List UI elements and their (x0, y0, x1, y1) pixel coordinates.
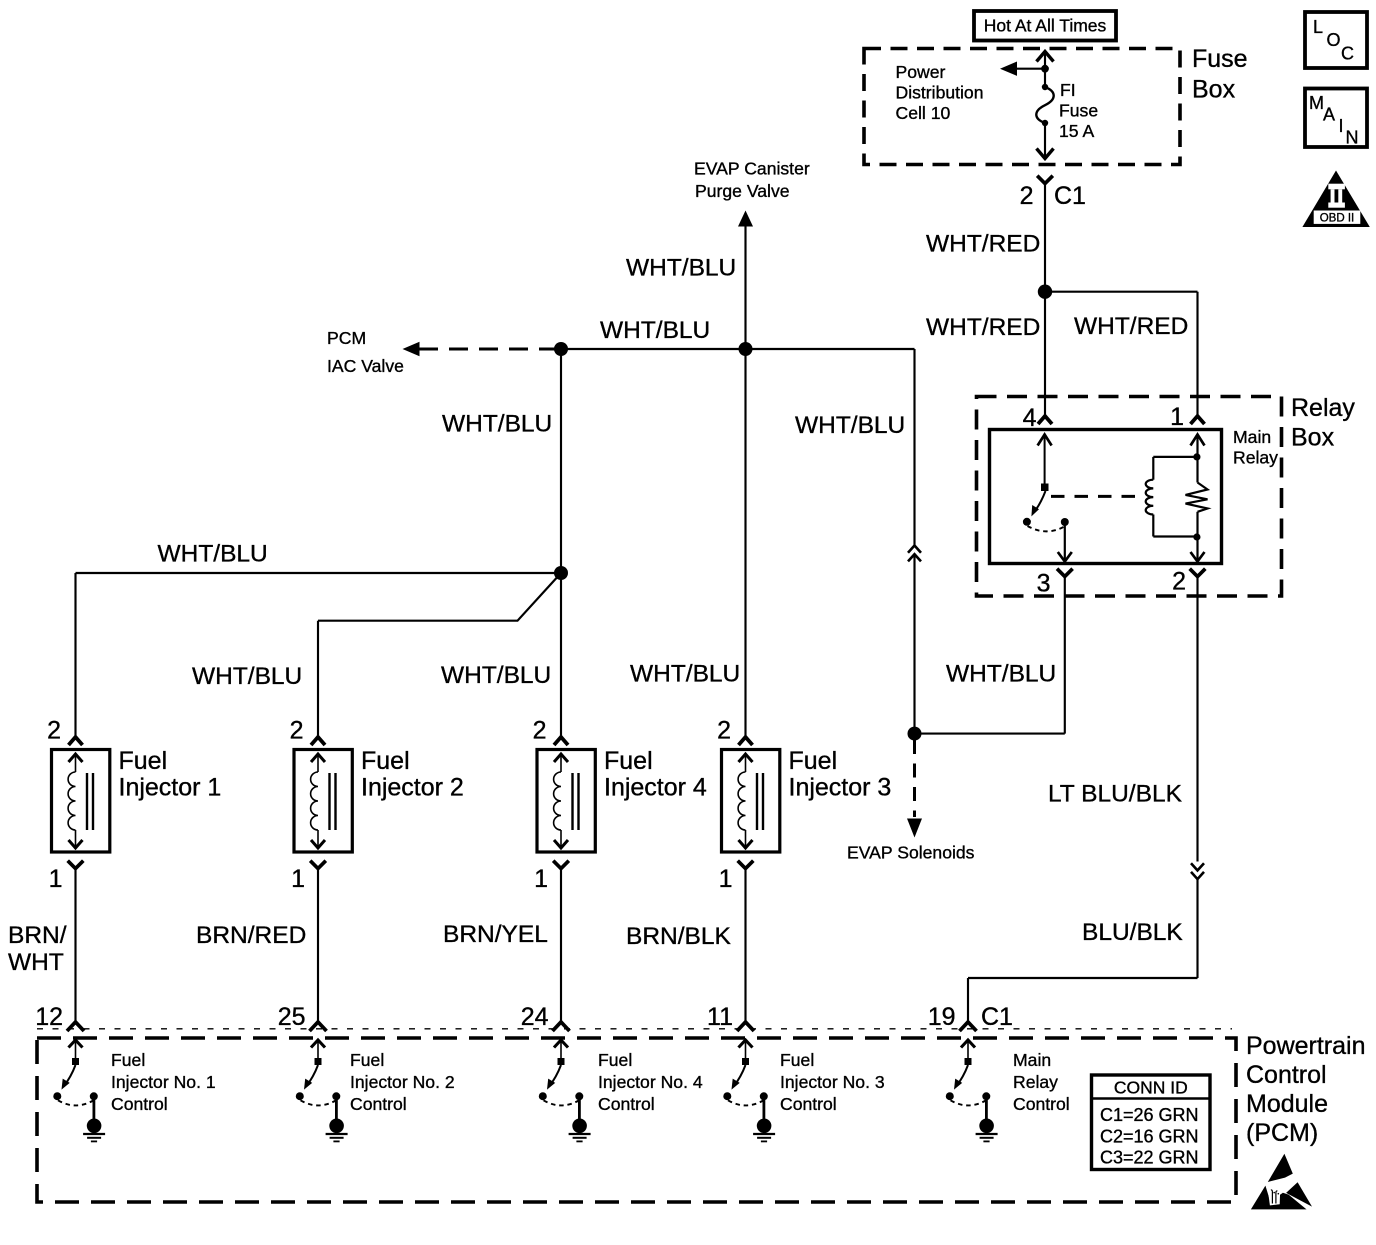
svg-text:Fuse: Fuse (1192, 45, 1248, 73)
svg-text:1: 1 (291, 865, 305, 893)
svg-text:Powertrain: Powertrain (1246, 1032, 1366, 1060)
svg-text:Fuel: Fuel (119, 747, 168, 775)
svg-text:Injector No. 2: Injector No. 2 (350, 1072, 455, 1092)
svg-text:C1: C1 (981, 1003, 1013, 1031)
svg-text:2: 2 (1020, 182, 1034, 210)
svg-text:2: 2 (47, 717, 61, 745)
svg-text:Fuel: Fuel (361, 747, 410, 775)
svg-text:M: M (1309, 93, 1324, 113)
svg-text:Injector 2: Injector 2 (361, 773, 464, 801)
svg-text:EVAP Solenoids: EVAP Solenoids (847, 842, 975, 862)
svg-text:1: 1 (49, 865, 63, 893)
svg-text:Control: Control (598, 1094, 655, 1114)
svg-text:BLU/BLK: BLU/BLK (1082, 919, 1183, 946)
svg-text:2: 2 (290, 717, 304, 745)
svg-text:Injector No. 3: Injector No. 3 (780, 1072, 885, 1092)
svg-text:19: 19 (928, 1003, 956, 1031)
svg-text:Fuel: Fuel (598, 1050, 632, 1070)
svg-text:Injector 4: Injector 4 (604, 773, 707, 801)
svg-text:BRN/RED: BRN/RED (196, 922, 306, 949)
svg-text:Box: Box (1192, 75, 1236, 103)
svg-text:BRN/: BRN/ (8, 922, 67, 949)
svg-text:BRN/BLK: BRN/BLK (626, 923, 732, 950)
svg-text:C1=26 GRN: C1=26 GRN (1100, 1105, 1199, 1125)
svg-text:Control: Control (1013, 1094, 1070, 1114)
svg-text:WHT/BLU: WHT/BLU (795, 412, 905, 439)
svg-text:1: 1 (534, 865, 548, 893)
svg-text:N: N (1346, 128, 1359, 148)
svg-text:Injector No. 1: Injector No. 1 (111, 1072, 216, 1092)
svg-text:Module: Module (1246, 1090, 1328, 1118)
svg-text:WHT/RED: WHT/RED (926, 314, 1040, 341)
svg-text:PCM: PCM (327, 328, 366, 348)
svg-text:2: 2 (533, 717, 547, 745)
svg-text:Control: Control (780, 1094, 837, 1114)
svg-text:4: 4 (1023, 404, 1037, 432)
svg-text:Distribution: Distribution (896, 83, 984, 103)
svg-text:Fuel: Fuel (789, 747, 838, 775)
svg-text:FI: FI (1060, 80, 1076, 100)
svg-text:(PCM): (PCM) (1246, 1119, 1318, 1147)
svg-text:WHT/BLU: WHT/BLU (441, 662, 551, 689)
svg-text:Fuel: Fuel (111, 1050, 145, 1070)
svg-text:Main: Main (1233, 427, 1271, 447)
svg-text:Relay: Relay (1013, 1072, 1058, 1092)
svg-text:Hot At All Times: Hot At All Times (984, 16, 1107, 36)
svg-text:WHT/BLU: WHT/BLU (600, 317, 710, 344)
svg-text:12: 12 (35, 1003, 63, 1031)
svg-text:EVAP Canister: EVAP Canister (694, 158, 810, 178)
svg-text:Injector 1: Injector 1 (119, 773, 222, 801)
svg-text:C1: C1 (1054, 182, 1086, 210)
svg-text:WHT/BLU: WHT/BLU (442, 410, 552, 437)
svg-text:Control: Control (350, 1094, 407, 1114)
svg-text:Cell 10: Cell 10 (896, 103, 951, 123)
svg-text:O: O (1327, 30, 1341, 50)
svg-text:Box: Box (1291, 423, 1335, 451)
svg-text:Relay: Relay (1233, 448, 1278, 468)
svg-text:CONN ID: CONN ID (1114, 1077, 1188, 1097)
svg-text:Power: Power (896, 62, 946, 82)
svg-text:WHT/BLU: WHT/BLU (192, 663, 302, 690)
svg-text:11: 11 (707, 1003, 733, 1031)
svg-text:WHT/BLU: WHT/BLU (630, 660, 740, 687)
svg-text:A: A (1323, 105, 1335, 125)
svg-text:C: C (1341, 44, 1354, 64)
svg-text:1: 1 (1170, 403, 1184, 431)
svg-text:15 A: 15 A (1059, 121, 1094, 141)
svg-text:2: 2 (1172, 568, 1186, 596)
svg-text:Fuse: Fuse (1059, 101, 1098, 121)
svg-text:BRN/YEL: BRN/YEL (443, 921, 548, 948)
svg-text:C2=16 GRN: C2=16 GRN (1100, 1126, 1199, 1146)
svg-text:Relay: Relay (1291, 394, 1355, 422)
svg-text:WHT/RED: WHT/RED (1074, 313, 1188, 340)
svg-text:Control: Control (111, 1094, 168, 1114)
svg-text:Control: Control (1246, 1061, 1327, 1089)
svg-text:Purge Valve: Purge Valve (695, 181, 790, 201)
svg-text:LT BLU/BLK: LT BLU/BLK (1048, 780, 1183, 807)
svg-text:C3=22 GRN: C3=22 GRN (1100, 1147, 1199, 1167)
svg-text:Fuel: Fuel (350, 1050, 384, 1070)
svg-text:I: I (1339, 116, 1344, 136)
svg-text:Main: Main (1013, 1050, 1051, 1070)
svg-text:IAC Valve: IAC Valve (327, 356, 404, 376)
svg-text:WHT/BLU: WHT/BLU (946, 660, 1056, 687)
svg-text:WHT/BLU: WHT/BLU (158, 540, 268, 567)
svg-text:2: 2 (717, 717, 731, 745)
svg-text:Fuel: Fuel (780, 1050, 814, 1070)
svg-text:Injector 3: Injector 3 (789, 773, 892, 801)
svg-text:WHT: WHT (8, 949, 64, 976)
svg-text:WHT/BLU: WHT/BLU (626, 254, 736, 281)
svg-text:1: 1 (719, 865, 733, 893)
svg-text:Fuel: Fuel (604, 747, 653, 775)
svg-text:24: 24 (521, 1003, 549, 1031)
svg-text:3: 3 (1037, 569, 1051, 597)
svg-text:Injector No. 4: Injector No. 4 (598, 1072, 703, 1092)
svg-text:25: 25 (278, 1003, 306, 1031)
svg-text:OBD II: OBD II (1320, 213, 1355, 225)
svg-text:WHT/RED: WHT/RED (926, 230, 1040, 257)
svg-text:L: L (1313, 17, 1323, 37)
